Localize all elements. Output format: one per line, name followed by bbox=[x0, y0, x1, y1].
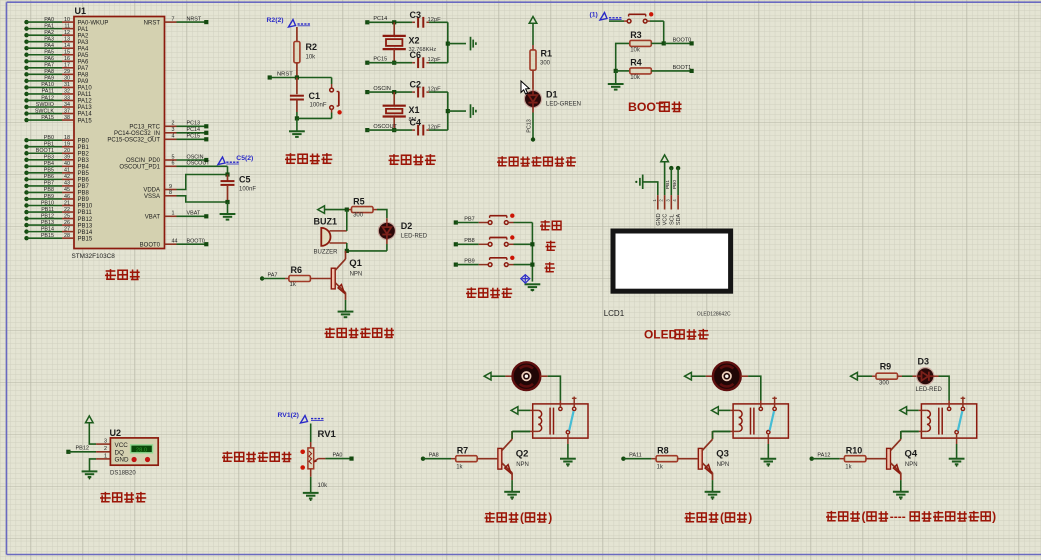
svg-text:PA15: PA15 bbox=[78, 118, 93, 124]
LCD1 display module bbox=[613, 231, 731, 291]
svg-text:BUZ1: BUZ1 bbox=[314, 217, 338, 227]
svg-text:PA4: PA4 bbox=[78, 46, 90, 52]
U1 pin PB14 (pad 27, wire+terminal) bbox=[24, 226, 93, 235]
svg-text:PB12: PB12 bbox=[76, 446, 89, 452]
push-button (BOOT) bbox=[627, 19, 631, 23]
junction C5 bottom bbox=[225, 200, 229, 204]
svg-text:PB5: PB5 bbox=[78, 171, 90, 177]
U1 pin PB4 (pad 40, wire+terminal) bbox=[24, 161, 89, 170]
power symbol (OLED VCC) bbox=[661, 155, 669, 162]
svg-text:GND: GND bbox=[656, 213, 662, 225]
svg-text:PB15: PB15 bbox=[78, 236, 93, 242]
U1 pin PC13_RTC (pad 2) / node PC13 bbox=[129, 121, 208, 131]
wire R2 to NRST rail bbox=[296, 63, 298, 78]
wire C1 to bottom rail bbox=[296, 100, 298, 113]
svg-text:PB1: PB1 bbox=[78, 145, 90, 151]
node PA0 wire bbox=[318, 458, 325, 460]
power symbol (motor rail) bbox=[685, 372, 692, 380]
svg-text:R2: R2 bbox=[306, 42, 318, 52]
svg-text:16: 16 bbox=[64, 56, 70, 62]
wire R3 left rail bbox=[616, 43, 630, 71]
ground (C5) bbox=[220, 213, 236, 215]
node PA8 bbox=[421, 457, 425, 461]
svg-text:31: 31 bbox=[64, 82, 70, 88]
U1 pin PB0 (pad 18, wire+terminal) bbox=[24, 135, 89, 144]
resistor R8 bbox=[656, 456, 678, 462]
junction NRST/C1 bbox=[295, 75, 299, 79]
svg-text:1k: 1k bbox=[456, 465, 463, 471]
svg-text:----: ---- bbox=[890, 510, 906, 524]
svg-text:PA2: PA2 bbox=[78, 33, 90, 39]
wire relay pole to ground bbox=[956, 438, 958, 444]
svg-text:19: 19 bbox=[64, 142, 70, 148]
wire PA11 to R8 bbox=[623, 458, 651, 460]
node BOOT1 bbox=[651, 70, 691, 72]
wire power to coil bbox=[907, 409, 919, 411]
U1 pin NRST (pad 7) / node NRST bbox=[144, 17, 209, 27]
wire motor to relay contact bbox=[741, 375, 748, 377]
svg-text:37: 37 bbox=[64, 108, 70, 114]
wire R3 to BOOT0 bbox=[651, 42, 663, 44]
svg-text:PB8: PB8 bbox=[44, 187, 54, 193]
svg-text:): ) bbox=[748, 511, 752, 525]
svg-text:BOOT0: BOOT0 bbox=[187, 239, 205, 245]
wire PA7 to R6 bbox=[262, 278, 285, 280]
wire C5 to ground bbox=[227, 202, 229, 214]
wire NRST to C1 bbox=[296, 78, 298, 95]
svg-text:BOOT1: BOOT1 bbox=[673, 65, 692, 71]
svg-text:R2(2): R2(2) bbox=[267, 17, 284, 24]
svg-text:PA5: PA5 bbox=[44, 50, 54, 56]
resistor R9 bbox=[876, 373, 898, 379]
svg-text:39: 39 bbox=[64, 155, 70, 161]
wire emitter to ground bbox=[900, 480, 902, 492]
svg-text:PB14: PB14 bbox=[78, 230, 93, 236]
svg-text:PB3: PB3 bbox=[44, 155, 54, 161]
wire motor to relay contact bbox=[540, 375, 547, 377]
node PA7 bbox=[260, 276, 264, 280]
caption 继电器(风扇) bbox=[485, 512, 496, 522]
wire power to motor bbox=[691, 375, 705, 377]
svg-text:27: 27 bbox=[64, 226, 70, 232]
wire VCC to U2 pin3 bbox=[89, 423, 96, 444]
svg-text:BOOT1: BOOT1 bbox=[36, 148, 54, 154]
svg-text:SDA: SDA bbox=[676, 214, 682, 226]
svg-text:PB0: PB0 bbox=[44, 135, 54, 141]
svg-text:GND: GND bbox=[115, 457, 129, 464]
svg-text:PB14: PB14 bbox=[41, 226, 54, 232]
svg-text:10: 10 bbox=[64, 17, 70, 23]
svg-text:PA9: PA9 bbox=[44, 76, 54, 82]
resistor R3 bbox=[630, 40, 652, 46]
relay RL1 bbox=[533, 404, 588, 438]
svg-text:PB6: PB6 bbox=[44, 174, 54, 180]
svg-text:12pF: 12pF bbox=[428, 57, 442, 63]
svg-text:PB9: PB9 bbox=[78, 197, 90, 203]
svg-text:PB5: PB5 bbox=[44, 168, 54, 174]
U1 pin BOOT0 (pad 44) / node BOOT0 bbox=[140, 239, 209, 249]
wire D3 to relay contact bbox=[934, 375, 939, 377]
svg-text:PB10: PB10 bbox=[78, 204, 93, 210]
svg-text:PB2: PB2 bbox=[78, 151, 90, 157]
wire collector to coil bbox=[511, 431, 513, 439]
svg-text:300: 300 bbox=[353, 213, 364, 219]
cursor label R2(2) bbox=[267, 17, 311, 27]
svg-text:NRST: NRST bbox=[144, 20, 161, 26]
svg-text:Q3: Q3 bbox=[716, 449, 729, 460]
svg-text:PA6: PA6 bbox=[78, 59, 90, 65]
svg-text:PA11: PA11 bbox=[42, 89, 54, 95]
svg-text:(1): (1) bbox=[590, 12, 598, 19]
wire to RV1 top bbox=[310, 424, 312, 443]
junction C5 top bbox=[225, 172, 229, 176]
svg-text:VCC: VCC bbox=[115, 442, 129, 449]
wire collector rail bbox=[347, 250, 387, 252]
wire collector to coil bbox=[712, 431, 714, 439]
wire R5 to D2 bbox=[373, 209, 377, 211]
svg-text:17: 17 bbox=[64, 63, 70, 69]
svg-text:(: ( bbox=[720, 511, 724, 525]
U1 pin PA5 (pad 15, wire+terminal) bbox=[24, 50, 89, 59]
svg-text:RV1(2): RV1(2) bbox=[278, 412, 299, 419]
U1 pin PA11 (pad 32, wire+terminal) bbox=[24, 89, 92, 98]
wire R6 to Q1 base bbox=[310, 278, 331, 280]
svg-text:NRST: NRST bbox=[277, 72, 293, 78]
svg-text:34: 34 bbox=[64, 102, 70, 108]
svg-text:25: 25 bbox=[64, 213, 70, 219]
motor (fan load) bbox=[713, 362, 741, 390]
svg-text:LCD1: LCD1 bbox=[604, 309, 625, 318]
node BOOT0 bbox=[664, 42, 692, 44]
svg-text:PB15: PB15 bbox=[41, 233, 54, 239]
svg-text:PA0-WKUP: PA0-WKUP bbox=[78, 20, 109, 26]
junction C1 bottom bbox=[295, 116, 299, 120]
svg-text:10k: 10k bbox=[318, 483, 329, 489]
svg-text:PB6: PB6 bbox=[78, 178, 90, 184]
wire R9 to D3 bbox=[898, 375, 903, 377]
buzzer BUZ1 bbox=[321, 228, 330, 246]
svg-text:C6: C6 bbox=[410, 50, 422, 60]
svg-text:14: 14 bbox=[64, 43, 70, 49]
node PA12 bbox=[810, 457, 814, 461]
svg-text:PB8: PB8 bbox=[464, 238, 474, 244]
motor (fan load) bbox=[513, 362, 541, 390]
svg-text:12pF: 12pF bbox=[428, 17, 442, 23]
svg-text:PA8: PA8 bbox=[78, 73, 90, 79]
capacitor C5 bbox=[221, 175, 257, 203]
wire power to R1 bbox=[532, 23, 534, 45]
svg-text:28.0: 28.0 bbox=[136, 447, 147, 453]
power symbol (relay coil) bbox=[900, 407, 907, 415]
sheet border (blue frame) bbox=[7, 1, 1041, 3]
svg-text:VBAT: VBAT bbox=[145, 215, 161, 221]
svg-text:PA13: PA13 bbox=[78, 105, 93, 111]
junction R4 left bbox=[614, 69, 618, 73]
caption 设置 bbox=[540, 220, 550, 230]
svg-text:): ) bbox=[548, 511, 552, 525]
caption 晶振电路 bbox=[389, 154, 400, 165]
svg-text:PA10: PA10 bbox=[41, 82, 54, 88]
svg-text:OSCOUT: OSCOUT bbox=[187, 161, 211, 167]
svg-text:X2: X2 bbox=[409, 35, 420, 45]
svg-text:OSCIN: OSCIN bbox=[373, 86, 390, 92]
svg-text:PA7: PA7 bbox=[268, 272, 278, 278]
transistor Q2 bbox=[498, 448, 502, 469]
node PB12 bbox=[66, 450, 70, 454]
svg-text:PC15-OSC32_OUT: PC15-OSC32_OUT bbox=[107, 138, 160, 144]
svg-text:26: 26 bbox=[64, 220, 70, 226]
svg-text:PB0: PB0 bbox=[78, 138, 90, 144]
wire D1 to PC13 terminal bbox=[532, 108, 534, 113]
wire keys rail bbox=[531, 223, 533, 282]
svg-text:10k: 10k bbox=[306, 55, 317, 61]
svg-text:X1: X1 bbox=[409, 105, 420, 115]
wire PB12 to U2 pin2 bbox=[68, 451, 96, 453]
svg-text:C1: C1 bbox=[309, 91, 321, 101]
ground (transistor) bbox=[504, 491, 520, 493]
svg-text:10k: 10k bbox=[630, 48, 641, 54]
mouse cursor bbox=[521, 81, 529, 94]
svg-text:PB9: PB9 bbox=[44, 194, 54, 200]
wire RV1 to ground bbox=[310, 469, 312, 477]
svg-text:PA11: PA11 bbox=[629, 452, 642, 458]
svg-text:43: 43 bbox=[64, 181, 70, 187]
svg-text:PA4: PA4 bbox=[44, 43, 54, 49]
svg-text:SCL: SCL bbox=[669, 214, 675, 225]
U2 temperature display 28.0 bbox=[130, 444, 153, 453]
svg-text:PA14: PA14 bbox=[78, 112, 93, 118]
svg-text:NPN: NPN bbox=[905, 462, 918, 468]
caption 甲醛数据调节 bbox=[222, 451, 233, 461]
wire top to R2 bbox=[296, 27, 298, 42]
svg-text:PB0: PB0 bbox=[672, 180, 678, 189]
svg-text:PA12: PA12 bbox=[78, 99, 93, 105]
svg-text:OSCIN: OSCIN bbox=[187, 154, 204, 160]
wire button top stub bbox=[331, 78, 333, 85]
U1 pin PA8 (pad 29, wire+terminal) bbox=[24, 69, 89, 78]
svg-text:PA0: PA0 bbox=[44, 17, 54, 23]
svg-text:PB12: PB12 bbox=[41, 213, 54, 219]
power symbol (U2 VCC) bbox=[86, 416, 94, 423]
svg-text:12: 12 bbox=[64, 30, 70, 36]
svg-text:R6: R6 bbox=[291, 265, 303, 275]
U1 pin PB6 (pad 42, wire+terminal) bbox=[24, 174, 89, 183]
U1 pin VBAT (pad 1) / node VBAT bbox=[145, 211, 209, 221]
svg-text:Q1: Q1 bbox=[349, 258, 362, 269]
wire GND bbox=[644, 182, 658, 195]
svg-text:100nF: 100nF bbox=[239, 187, 256, 193]
svg-text:PB3: PB3 bbox=[78, 158, 90, 164]
svg-text:PB4: PB4 bbox=[44, 161, 54, 167]
caption 加 bbox=[546, 241, 556, 251]
svg-text:PB13: PB13 bbox=[78, 223, 93, 229]
svg-text:PC13: PC13 bbox=[187, 121, 201, 127]
cursor label (1) bbox=[590, 12, 622, 21]
svg-text:VDDA: VDDA bbox=[143, 188, 160, 194]
wire resistor to base bbox=[866, 458, 887, 460]
wire PA8 to R7 bbox=[423, 458, 451, 460]
transistor Q1 bbox=[331, 268, 335, 289]
wire OSCOUT to C5 junction bbox=[227, 166, 229, 174]
wire button bottom stub bbox=[331, 109, 333, 113]
U1 pin PC15-OSC32_OUT (pad 4) / node PC15 bbox=[107, 134, 208, 144]
svg-text:4: 4 bbox=[172, 134, 175, 140]
crystal X1 group (OSCIN/OSCOUT, C2, C4, 8M) with node labels, wires, ground bbox=[365, 80, 476, 136]
svg-text:21: 21 bbox=[64, 200, 70, 206]
LCD1 pin stubs bbox=[657, 195, 659, 209]
U2 buttons (red dots) bbox=[132, 457, 137, 462]
wire emitter to ground bbox=[712, 480, 714, 492]
potentiometer RV1 body bbox=[308, 448, 314, 469]
svg-text:6: 6 bbox=[172, 161, 175, 167]
U1 pin OSCOUT_PD1 (pad 6) / node OSCOUT bbox=[119, 161, 227, 171]
svg-text:C2: C2 bbox=[410, 80, 422, 90]
wire to ground (BOOT) bbox=[615, 71, 617, 84]
U1 pin PC14-OSC32_IN (pad 3) / node PC14 bbox=[114, 127, 208, 137]
junction BOOT0 bbox=[662, 41, 666, 45]
U1 pin PB1 (pad 19, wire+terminal) bbox=[24, 142, 89, 151]
svg-text:38: 38 bbox=[64, 115, 70, 121]
RV1 wiper arrow bbox=[314, 459, 318, 462]
U1 pin PA10 (pad 31, wire+terminal) bbox=[24, 82, 92, 91]
svg-text:PC14-OSC32_IN: PC14-OSC32_IN bbox=[114, 131, 160, 137]
svg-text:VBAT: VBAT bbox=[187, 211, 201, 217]
svg-text:PC13: PC13 bbox=[527, 119, 533, 133]
svg-text:R1: R1 bbox=[541, 49, 553, 59]
wire to BOOT button bbox=[609, 20, 624, 22]
svg-text:9: 9 bbox=[169, 184, 172, 190]
relay RL2 bbox=[733, 404, 788, 438]
svg-text:PB1: PB1 bbox=[665, 180, 671, 189]
svg-text:VCC: VCC bbox=[663, 214, 669, 226]
svg-text:D2: D2 bbox=[401, 221, 413, 231]
svg-text:DQ: DQ bbox=[115, 449, 125, 456]
diode D2 (LED-RED) bbox=[378, 222, 395, 239]
U1 pin SWCLK (pad 37, wire+terminal) bbox=[24, 108, 92, 117]
svg-text:PB12: PB12 bbox=[78, 217, 93, 223]
U1 pin PA2 (pad 12, wire+terminal) bbox=[24, 30, 89, 39]
RV1 red dots bbox=[300, 450, 305, 455]
svg-text:2: 2 bbox=[104, 446, 107, 452]
svg-text:LED-RED: LED-RED bbox=[401, 234, 428, 240]
wire resistor to base bbox=[477, 458, 498, 460]
svg-text:300: 300 bbox=[879, 381, 890, 387]
svg-text:STM32F103C8: STM32F103C8 bbox=[72, 253, 116, 260]
svg-text:PA8: PA8 bbox=[44, 69, 54, 75]
svg-text:46: 46 bbox=[64, 194, 70, 200]
svg-text:45: 45 bbox=[64, 187, 70, 193]
svg-text:PA12: PA12 bbox=[817, 452, 830, 458]
svg-text:PA1: PA1 bbox=[44, 23, 54, 29]
svg-text:33: 33 bbox=[64, 95, 70, 101]
svg-text:PC15: PC15 bbox=[187, 134, 201, 140]
svg-text:12pF: 12pF bbox=[428, 87, 442, 93]
U1 pin PA1 (pad 11, wire+terminal) bbox=[24, 23, 89, 32]
svg-text:PA0: PA0 bbox=[333, 452, 343, 458]
svg-text:18: 18 bbox=[64, 135, 70, 141]
wire relay pole to ground bbox=[767, 438, 769, 444]
svg-text:42: 42 bbox=[64, 174, 70, 180]
svg-text:7: 7 bbox=[172, 17, 175, 23]
node PA11 bbox=[621, 457, 625, 461]
ground (reset) bbox=[289, 130, 305, 132]
caption 继电器(净化) bbox=[685, 512, 696, 522]
U1 pin PA7 (pad 17, wire+terminal) bbox=[24, 63, 89, 72]
svg-text:PB7: PB7 bbox=[44, 181, 54, 187]
svg-text:PA15: PA15 bbox=[41, 115, 54, 121]
node SDA wire (PB0) bbox=[676, 166, 680, 170]
U1 pin VDDA (pad 9) wire bbox=[143, 175, 227, 194]
U1 pin PB11 (pad 22, wire+terminal) bbox=[24, 207, 92, 216]
svg-text:PA12: PA12 bbox=[41, 95, 54, 101]
svg-text:PA3: PA3 bbox=[78, 40, 90, 46]
junction rail PB9 bbox=[530, 263, 534, 267]
svg-text:28: 28 bbox=[64, 233, 70, 239]
svg-text:PB7: PB7 bbox=[78, 184, 90, 190]
U1 pin PB15 (pad 28, wire+terminal) bbox=[24, 233, 93, 242]
svg-text:2: 2 bbox=[172, 121, 175, 127]
svg-text:BUZZER: BUZZER bbox=[314, 250, 339, 256]
svg-text:PB7: PB7 bbox=[464, 216, 474, 222]
ground (keys) bbox=[525, 283, 541, 285]
svg-text:NRST: NRST bbox=[187, 17, 202, 23]
svg-text:U1: U1 bbox=[75, 6, 87, 16]
caption 减 bbox=[545, 262, 555, 272]
resistor R7 bbox=[456, 456, 478, 462]
marker (blue diamond) bbox=[521, 275, 530, 284]
svg-text:PB9: PB9 bbox=[464, 258, 474, 264]
crystal X2 group (PC14/PC15, C3, C6, 32.768KHz) with node labels, wires, ground bbox=[365, 10, 476, 68]
ground (U2) bbox=[82, 470, 98, 472]
push-button key PB9 (node PB9, wires) bbox=[454, 256, 533, 267]
U1 pin OSCIN_PD0 (pad 5) / node OSCIN bbox=[126, 154, 208, 164]
svg-text:PB4: PB4 bbox=[78, 165, 90, 171]
svg-text:8: 8 bbox=[169, 190, 172, 196]
svg-text:C5(2): C5(2) bbox=[236, 155, 253, 162]
svg-text:11: 11 bbox=[64, 23, 70, 29]
wire R1 to D1 bbox=[532, 70, 534, 90]
wire power to motor bbox=[491, 375, 505, 377]
svg-text:OLED: OLED bbox=[644, 328, 678, 342]
svg-text:PB11: PB11 bbox=[78, 210, 93, 216]
wire coil bottom to transistor collector bbox=[730, 430, 733, 432]
power symbol (motor rail) bbox=[484, 372, 491, 380]
wire emitter to ground bbox=[511, 480, 513, 492]
power symbol (relay coil) bbox=[712, 407, 719, 415]
U1 pin PB9 (pad 46, wire+terminal) bbox=[24, 194, 89, 203]
ground (relay pole) bbox=[760, 458, 776, 460]
svg-text:SWCLK: SWCLK bbox=[35, 108, 55, 114]
svg-text:(: ( bbox=[520, 511, 524, 525]
svg-text:20: 20 bbox=[64, 148, 70, 154]
svg-text:PA8: PA8 bbox=[429, 452, 439, 458]
chip U1 (STM32F103C8) body bbox=[74, 17, 165, 249]
svg-text:29: 29 bbox=[64, 69, 70, 75]
wire relay pole to ground bbox=[567, 438, 569, 444]
svg-text:U2: U2 bbox=[110, 428, 122, 438]
svg-text:NPN: NPN bbox=[350, 272, 363, 278]
svg-text:PA7: PA7 bbox=[78, 66, 90, 72]
ground (transistor) bbox=[705, 491, 721, 493]
svg-text:C5: C5 bbox=[239, 175, 251, 185]
junction R5/buzzer bbox=[345, 208, 349, 212]
junction rail PB8 bbox=[530, 242, 534, 246]
wire power to R9 bbox=[857, 375, 872, 377]
svg-text:PA6: PA6 bbox=[44, 56, 54, 62]
U1 pin PB8 (pad 45, wire+terminal) bbox=[24, 187, 89, 196]
svg-text:Q4: Q4 bbox=[905, 449, 918, 460]
U1 pin PB12 (pad 25, wire+terminal) bbox=[24, 213, 93, 222]
